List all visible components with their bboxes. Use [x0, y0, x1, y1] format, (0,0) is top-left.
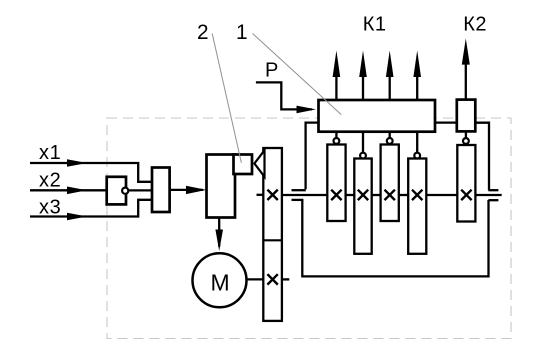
svg-text:x3: x3	[39, 196, 61, 218]
svg-text:x1: x1	[39, 142, 61, 164]
svg-text:Р: Р	[265, 59, 278, 81]
svg-text:M: M	[211, 270, 230, 296]
svg-text:1: 1	[236, 21, 248, 44]
svg-text:К2: К2	[463, 13, 487, 35]
svg-text:К1: К1	[363, 13, 387, 35]
svg-text:x2: x2	[39, 170, 61, 192]
svg-text:2: 2	[197, 21, 209, 44]
